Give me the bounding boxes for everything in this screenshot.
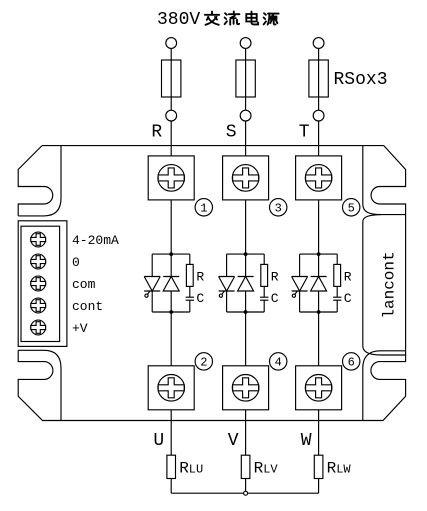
svg-text:S: S xyxy=(226,122,237,142)
svg-text:2: 2 xyxy=(200,356,207,370)
svg-text:1: 1 xyxy=(200,202,207,216)
svg-text:+V: +V xyxy=(72,321,88,336)
svg-text:RLU: RLU xyxy=(179,460,203,478)
svg-text:4-20mA: 4-20mA xyxy=(72,233,119,248)
svg-text:RLV: RLV xyxy=(254,460,279,478)
svg-text:4: 4 xyxy=(275,356,282,370)
svg-text:com: com xyxy=(72,277,96,292)
svg-text:6: 6 xyxy=(348,356,355,370)
svg-text:5: 5 xyxy=(348,202,355,216)
svg-text:lancont: lancont xyxy=(381,251,399,318)
svg-text:W: W xyxy=(301,431,312,451)
svg-text:RSox3: RSox3 xyxy=(334,70,388,90)
svg-text:R: R xyxy=(151,122,162,142)
svg-text:U: U xyxy=(153,431,164,451)
svg-text:V: V xyxy=(228,431,239,451)
svg-text:RLW: RLW xyxy=(327,460,352,478)
svg-text:T: T xyxy=(299,122,310,142)
svg-text:380V: 380V xyxy=(157,10,200,30)
svg-text:cont: cont xyxy=(72,299,103,314)
svg-text:3: 3 xyxy=(275,202,282,216)
svg-text:0: 0 xyxy=(72,255,80,270)
